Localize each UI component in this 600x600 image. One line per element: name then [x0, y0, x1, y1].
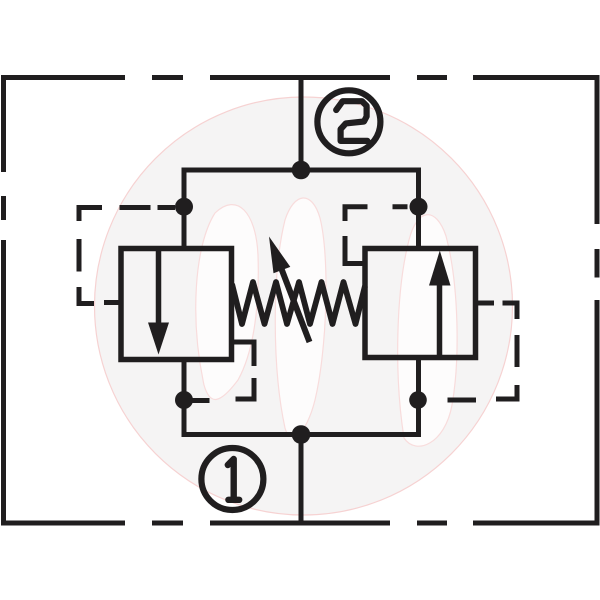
adjustment arrow shaft — [282, 269, 310, 342]
watermark petal left — [196, 205, 259, 400]
port 2 circle — [317, 90, 380, 153]
valve V1 body — [121, 249, 232, 360]
wire bottom manifold — [184, 358, 419, 435]
valve V2 arrowhead up — [429, 251, 451, 286]
valve V2 body — [365, 249, 476, 358]
dashed enclosure border right — [595, 75, 600, 526]
junction node port1/bottom — [292, 425, 311, 444]
junction node left drain — [175, 391, 193, 409]
watermark logo disk — [95, 97, 513, 515]
pilot line left dashed — [79, 208, 175, 304]
valve V1 arrowhead down — [148, 323, 169, 355]
watermark petal middle — [275, 198, 326, 437]
port 2 digit — [336, 101, 367, 141]
port 1 circle — [201, 448, 263, 510]
dashed enclosure border left — [1, 75, 6, 526]
watermark petal right — [398, 215, 457, 446]
spring — [232, 282, 365, 324]
wire top manifold — [184, 170, 419, 249]
valve V2 flow arrow shaft — [437, 283, 443, 356]
valve V1 flow arrow shaft — [156, 251, 162, 330]
drain line left dashed — [192, 342, 255, 401]
junction node left pilot — [175, 198, 193, 216]
dashed enclosure border bottom — [1, 521, 599, 526]
junction node right drain — [409, 391, 427, 409]
junction node port2/top — [292, 161, 311, 180]
wire port 1 drop — [299, 435, 304, 526]
wire port 2 riser — [299, 75, 304, 170]
adjustment arrowhead — [269, 237, 290, 274]
dashed enclosure border top — [1, 75, 599, 80]
drain line right dashed — [448, 303, 518, 400]
pilot line right-top dashed — [345, 207, 408, 264]
junction node right pilot — [410, 198, 428, 216]
port 1 digit — [228, 459, 239, 500]
